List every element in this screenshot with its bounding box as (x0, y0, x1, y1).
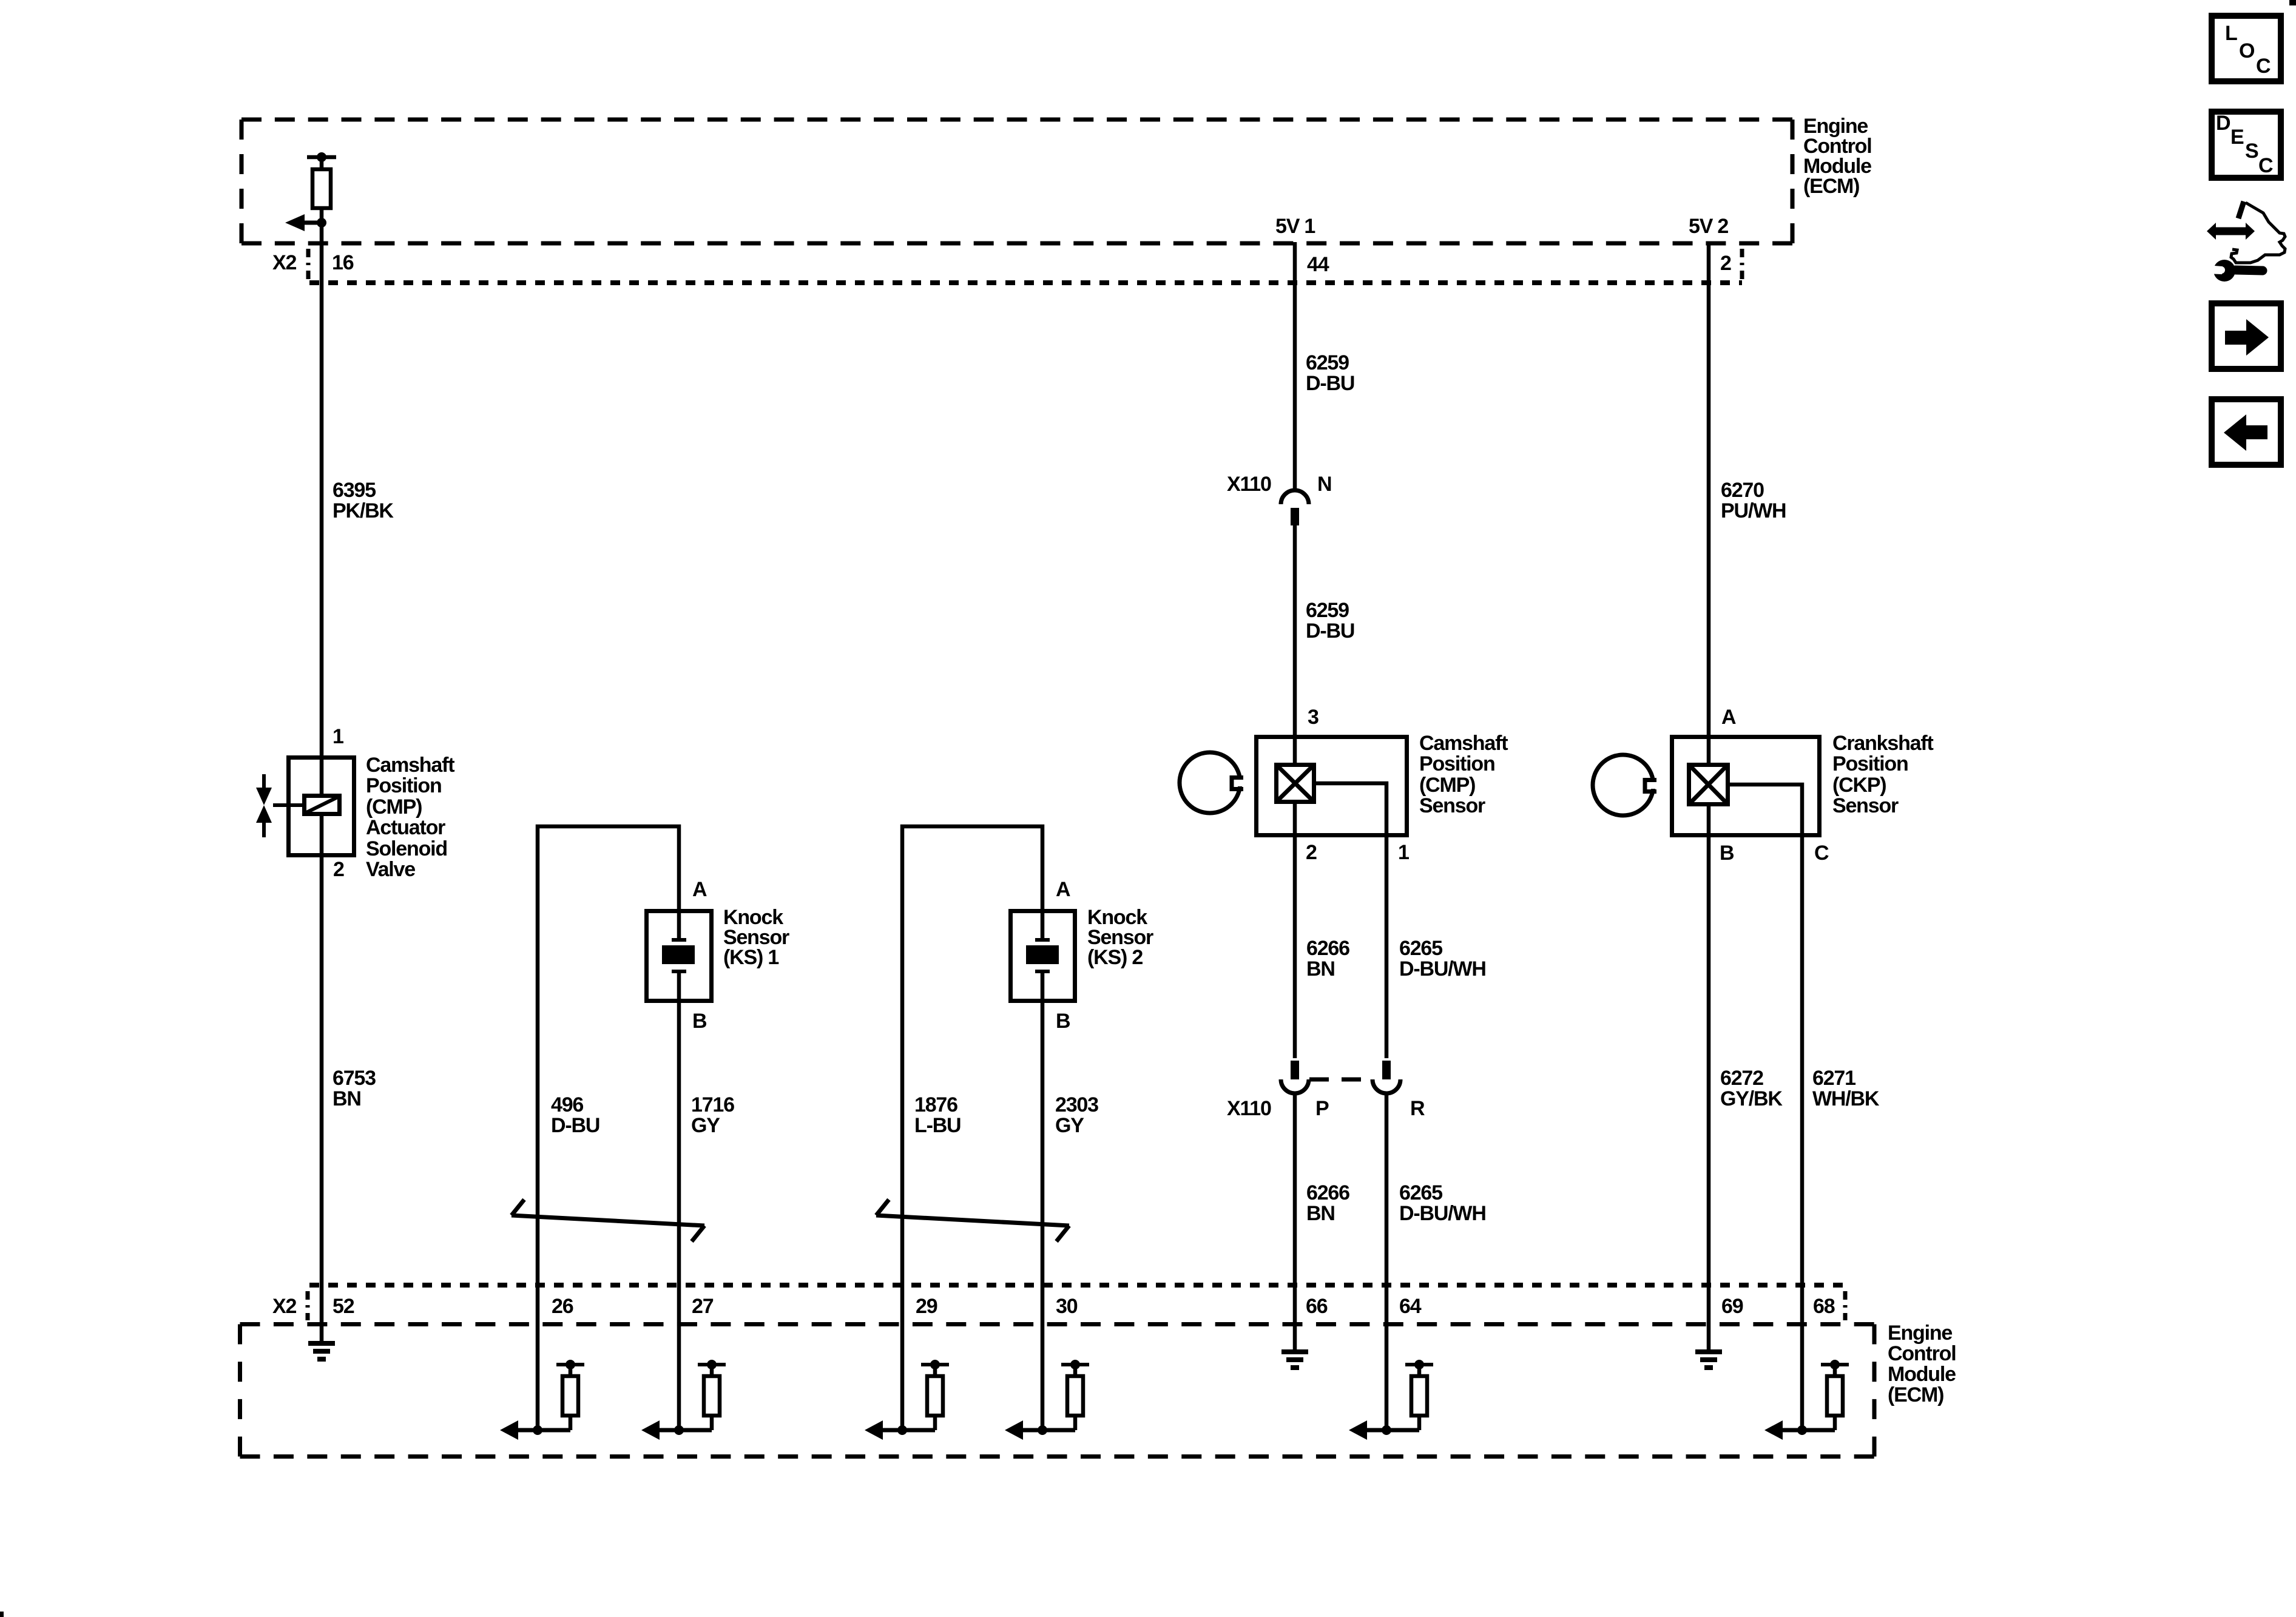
ground at ECM pin66 (1281, 1352, 1308, 1368)
nav icon LOC (2212, 16, 2281, 81)
svg-text:16: 16 (332, 251, 354, 274)
svg-text:E: E (2230, 126, 2244, 149)
CMP sensing element (X box) (1277, 765, 1314, 802)
connector X110 cavity P (1281, 1061, 1309, 1093)
wire 6265 D-BU/WH to ECM pin64 (1385, 1093, 1389, 1430)
svg-text:Crankshaft: Crankshaft (1832, 732, 1933, 755)
svg-text:1: 1 (333, 725, 343, 748)
svg-text:6266: 6266 (1306, 937, 1349, 960)
wire CKP pinB (6272) (1707, 805, 1711, 1350)
svg-text:(KS) 1: (KS) 1 (723, 946, 778, 969)
svg-text:3: 3 (1308, 706, 1319, 729)
svg-text:D-BU: D-BU (1306, 619, 1354, 643)
svg-text:30: 30 (1056, 1295, 1078, 1318)
svg-text:6395: 6395 (333, 479, 376, 502)
svg-text:6259: 6259 (1306, 351, 1349, 374)
svg-text:Solenoid: Solenoid (366, 837, 447, 860)
svg-text:2303: 2303 (1055, 1093, 1098, 1116)
CKP sensor box (1672, 737, 1820, 836)
page artifact bottom-left (0, 1612, 4, 1617)
label 6395 PK/BK (333, 479, 394, 522)
svg-text:(ECM): (ECM) (1888, 1383, 1943, 1406)
wire KS1 pinB to ECM pin27 (677, 1003, 681, 1430)
svg-text:X110: X110 (1227, 473, 1271, 496)
svg-text:R: R (1410, 1097, 1425, 1120)
KS2 piezo element (1026, 909, 1059, 1003)
junction dot at ECM pin16 node (317, 218, 326, 228)
svg-text:29: 29 (916, 1295, 937, 1318)
ECM X2 connector strip (bottom) (309, 1283, 1846, 1288)
svg-text:26: 26 (552, 1295, 573, 1318)
label 6259 D-BU (lower) (1306, 599, 1354, 643)
svg-text:BN: BN (1306, 957, 1335, 981)
nav icon DESC (2212, 112, 2281, 178)
label Crankshaft Position (CKP) Sensor (1832, 732, 1933, 817)
connector label X2 (top) (272, 251, 296, 274)
wire KS2 pinB to ECM pin30 (1041, 1003, 1045, 1430)
pin 64 label (1399, 1295, 1422, 1318)
wire CMP pin2 (6266) (1293, 802, 1297, 1058)
dash-dot separator (bottom X2) (306, 1291, 310, 1320)
pin 2 label (solenoid) (333, 858, 344, 881)
ECM input load pin26: arrow and pull resistor (500, 1360, 584, 1440)
svg-text:PU/WH: PU/WH (1721, 499, 1786, 522)
ground at ECM pin69 (1695, 1352, 1722, 1368)
svg-text:6266: 6266 (1306, 1181, 1349, 1204)
connector X110 cavity N (1281, 490, 1309, 525)
label 1716 GY (691, 1093, 734, 1137)
Knock Sensor KS1 box (647, 911, 712, 1001)
svg-text:68: 68 (1813, 1295, 1835, 1318)
connector X110 cavity R (1373, 1061, 1400, 1093)
svg-text:5V 1: 5V 1 (1275, 215, 1315, 238)
svg-text:X2: X2 (272, 1295, 296, 1318)
wire 6259 D-BU (lower) (1293, 525, 1297, 763)
label Camshaft Position (CMP) Sensor (1419, 732, 1508, 817)
label 1876 L-BU (914, 1093, 961, 1137)
valve symbol (two triangles) (256, 774, 272, 837)
ECM bottom label Engine Control Module (ECM) (1888, 1322, 1956, 1406)
internal ECM resistor (CMP actuator driver) (307, 152, 336, 223)
svg-text:6265: 6265 (1399, 937, 1442, 960)
label Knock Sensor (KS) 1 (723, 906, 789, 969)
svg-text:64: 64 (1399, 1295, 1422, 1318)
wire 6266 BN to ECM pin66 (1293, 1093, 1297, 1350)
nav icon back (left arrow) (2212, 399, 2281, 465)
label 6270 PU/WH (1721, 479, 1786, 522)
svg-text:(CMP): (CMP) (1419, 774, 1475, 797)
wire 6270 PU/WH (5V2 feed) (1707, 242, 1711, 763)
svg-text:B: B (1720, 842, 1734, 865)
pin 16 label (332, 251, 354, 274)
pin B label KS2 (1056, 1010, 1070, 1033)
dash-dot separator (top right) (1740, 249, 1744, 279)
dashed connector link P-R (1309, 1078, 1373, 1082)
svg-text:(ECM): (ECM) (1803, 175, 1859, 198)
ECM bottom dashed box (240, 1325, 1875, 1457)
twisted pair symbol KS1 (512, 1200, 704, 1241)
label 6266 BN (upper) (1306, 937, 1349, 981)
svg-text:6753: 6753 (333, 1067, 376, 1090)
svg-text:6259: 6259 (1306, 599, 1349, 622)
svg-text:Camshaft: Camshaft (366, 754, 454, 777)
ECM input load pin30: arrow and pull resistor (1005, 1360, 1089, 1440)
svg-text:Position: Position (1832, 752, 1908, 775)
svg-text:44: 44 (1307, 253, 1329, 276)
wire CMP pin1 (6265) internal and down (1314, 783, 1386, 1058)
label 6259 D-BU (upper) (1306, 351, 1354, 395)
svg-text:D-BU: D-BU (551, 1114, 599, 1137)
pin 1 label (solenoid) (333, 725, 343, 748)
svg-text:52: 52 (333, 1295, 354, 1318)
svg-text:A: A (692, 878, 707, 901)
CKP reluctor circle (1593, 755, 1660, 815)
node 5V 2 (1689, 215, 1728, 238)
wire 6753 BN: solenoid pin2 to ECM pin52 (320, 814, 324, 1342)
svg-text:496: 496 (551, 1093, 583, 1116)
twisted pair symbol KS2 (876, 1200, 1069, 1241)
svg-text:Position: Position (366, 774, 442, 797)
svg-text:Actuator: Actuator (366, 816, 445, 839)
pin 69 label (1721, 1295, 1743, 1318)
ECM input load pin64: arrow and pull resistor (1349, 1360, 1433, 1440)
svg-text:66: 66 (1306, 1295, 1328, 1318)
svg-text:O: O (2239, 39, 2255, 62)
svg-text:1: 1 (1398, 841, 1409, 864)
svg-text:Control: Control (1888, 1342, 1956, 1365)
svg-text:BN: BN (1306, 1202, 1335, 1225)
svg-text:6272: 6272 (1720, 1067, 1763, 1090)
svg-text:D-BU/WH: D-BU/WH (1399, 957, 1486, 981)
pin A label KS2 (1056, 878, 1070, 901)
svg-text:6270: 6270 (1721, 479, 1764, 502)
ECM input load pin27: arrow and pull resistor (641, 1360, 726, 1440)
label Camshaft Position (CMP) Actuator Solenoid Valve (366, 754, 454, 881)
ground at ECM pin52 (308, 1343, 335, 1359)
KS1 wire pair top link (538, 826, 679, 1430)
svg-text:C: C (2258, 154, 2273, 177)
pin 68 label (1813, 1295, 1835, 1318)
label X110 N (1227, 473, 1331, 496)
svg-text:(KS) 2: (KS) 2 (1087, 946, 1143, 969)
label 6272 GY/BK (1720, 1067, 1783, 1110)
label 496 D-BU (551, 1093, 599, 1137)
KS1 piezo element (662, 909, 695, 1003)
svg-text:GY: GY (1055, 1114, 1084, 1137)
label Knock Sensor (KS) 2 (1087, 906, 1153, 969)
wire CKP pinC (6271) internal and down (1728, 785, 1802, 1430)
svg-text:GY/BK: GY/BK (1720, 1087, 1783, 1110)
pin 66 label (1306, 1295, 1328, 1318)
solenoid coil symbol (273, 796, 340, 814)
svg-text:Position: Position (1419, 752, 1495, 775)
pin B label KS1 (692, 1010, 707, 1033)
svg-text:27: 27 (692, 1295, 714, 1318)
svg-text:A: A (1721, 706, 1736, 729)
ECM top dashed box (241, 120, 1792, 243)
svg-text:PK/BK: PK/BK (333, 499, 394, 522)
nav icon vehicle-harness with double arrow and wrench (2206, 201, 2285, 282)
signal arrow inside ECM (left) (285, 214, 322, 231)
pin 1 label CMP (1398, 841, 1409, 864)
wire 6395 PK/BK: ECM pin16 to CMP actuator pin1 (320, 223, 324, 795)
svg-text:1876: 1876 (914, 1093, 957, 1116)
KS2 wire pair top link (902, 826, 1042, 1430)
svg-text:6265: 6265 (1399, 1181, 1442, 1204)
label 6266 BN (lower) (1306, 1181, 1349, 1225)
ECM X2 connector strip (top) (309, 280, 1742, 285)
CMP actuator solenoid valve box (289, 758, 354, 856)
svg-text:Valve: Valve (366, 858, 415, 881)
svg-text:C: C (2256, 55, 2271, 78)
svg-text:2: 2 (1306, 841, 1317, 864)
svg-text:D-BU/WH: D-BU/WH (1399, 1202, 1486, 1225)
pin 29 label (916, 1295, 937, 1318)
svg-text:1716: 1716 (691, 1093, 734, 1116)
svg-text:Sensor: Sensor (1832, 794, 1899, 817)
label 6753 BN (333, 1067, 376, 1110)
label X110 P R (1227, 1097, 1425, 1120)
svg-text:2: 2 (1720, 252, 1731, 275)
svg-text:A: A (1056, 878, 1070, 901)
svg-text:B: B (1056, 1010, 1070, 1033)
pin C label CKP (1814, 842, 1829, 865)
CMP sensor box (1257, 737, 1407, 836)
label 6265 D-BU/WH (lower) (1399, 1181, 1486, 1225)
pin A label CKP (1721, 706, 1736, 729)
svg-text:5V 2: 5V 2 (1689, 215, 1728, 238)
svg-text:2: 2 (333, 858, 344, 881)
pin 52 label (333, 1295, 354, 1318)
ECM input load pin29: arrow and pull resistor (865, 1360, 949, 1440)
svg-text:N: N (1317, 473, 1331, 496)
nav icon next (right arrow) (2212, 303, 2281, 369)
pin 2 label CMP (1306, 841, 1317, 864)
svg-text:Engine: Engine (1888, 1322, 1952, 1345)
svg-text:Module: Module (1888, 1363, 1956, 1386)
pin 30 label (1056, 1295, 1078, 1318)
ECM input load pin68: arrow and pull resistor (1764, 1360, 1849, 1440)
svg-text:6271: 6271 (1812, 1067, 1855, 1090)
wire 6259 D-BU (5V1 feed upper) (1293, 242, 1297, 491)
label 6265 D-BU/WH (upper) (1399, 937, 1486, 981)
ECM top label Engine Control Module (ECM) (1803, 115, 1871, 198)
pin 26 label (552, 1295, 573, 1318)
svg-text:B: B (692, 1010, 707, 1033)
svg-text:WH/BK: WH/BK (1812, 1087, 1880, 1110)
pin 27 label (692, 1295, 714, 1318)
pin 2 label (5V2) (1720, 252, 1731, 275)
CMP reluctor circle (1180, 752, 1247, 813)
node 5V 1 (1275, 215, 1315, 238)
label 6271 WH/BK (1812, 1067, 1880, 1110)
svg-text:L: L (2225, 22, 2237, 45)
connector label X2 (bottom) (272, 1295, 296, 1318)
svg-text:X2: X2 (272, 251, 296, 274)
svg-text:69: 69 (1721, 1295, 1743, 1318)
svg-text:S: S (2245, 140, 2258, 163)
CKP sensing element (X box) (1689, 765, 1728, 805)
Knock Sensor KS2 box (1011, 911, 1075, 1001)
svg-text:X110: X110 (1227, 1097, 1271, 1120)
dash-dot separator (top X2) (306, 249, 311, 279)
svg-text:C: C (1814, 842, 1829, 865)
pin 44 label (1307, 253, 1329, 276)
svg-text:L-BU: L-BU (914, 1114, 961, 1137)
svg-text:GY: GY (691, 1114, 720, 1137)
svg-text:P: P (1315, 1097, 1329, 1120)
label 2303 GY (1055, 1093, 1098, 1137)
pin A label KS1 (692, 878, 707, 901)
svg-text:(CKP): (CKP) (1832, 774, 1886, 797)
pin B label CKP (1720, 842, 1734, 865)
page artifact top-right (2289, 0, 2296, 5)
svg-text:Sensor: Sensor (1419, 794, 1485, 817)
svg-text:D-BU: D-BU (1306, 372, 1354, 395)
svg-text:Camshaft: Camshaft (1419, 732, 1508, 755)
svg-text:(CMP): (CMP) (366, 795, 422, 819)
pin 3 label CMP (1308, 706, 1319, 729)
dash-dot separator (bottom right) (1843, 1291, 1848, 1320)
svg-text:BN: BN (333, 1087, 361, 1110)
svg-text:D: D (2216, 112, 2230, 135)
